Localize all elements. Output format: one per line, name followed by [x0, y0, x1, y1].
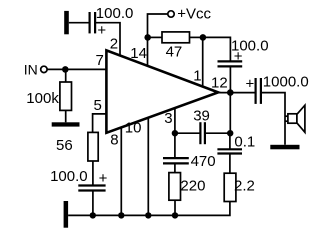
ground G4 bar under speaker	[270, 145, 299, 150]
svg-text:+: +	[246, 76, 255, 93]
wire C3 to speaker	[262, 93, 285, 145]
svg-text:56: 56	[56, 137, 73, 154]
junction dot rail pin 10	[145, 212, 151, 218]
svg-text:220: 220	[180, 178, 205, 195]
resistor R1 47 body	[162, 32, 190, 43]
resistor R3 56 body	[88, 132, 98, 161]
wire node A to R1	[148, 36, 163, 38]
wire ground G1 to C1	[69, 22, 89, 24]
wire C1 to pin 2	[96, 23, 120, 56]
capacitor C1 100.0 (top-left) plates	[88, 12, 90, 33]
svg-text:10: 10	[125, 120, 142, 137]
Vcc terminal circle	[168, 11, 174, 17]
capacitor C7 470 plates	[163, 157, 189, 159]
svg-text:47: 47	[166, 44, 183, 61]
op-amp U1 triangle	[106, 50, 218, 132]
wire R4 to rail	[174, 200, 176, 215]
resistor R4 220 body	[169, 173, 181, 201]
svg-text:0.1: 0.1	[234, 133, 255, 150]
svg-text:+Vcc: +Vcc	[177, 5, 211, 22]
wire ground rail	[68, 202, 230, 216]
IN terminal circle	[41, 66, 47, 72]
junction dot rail pin 8	[118, 212, 124, 218]
ground G1 top-left bar	[64, 11, 69, 34]
capacitor C3 1000.0 plates	[255, 78, 257, 104]
wire IN node to R2	[65, 69, 67, 82]
wire C2 to output node	[229, 66, 231, 92]
wire output to C3	[218, 92, 255, 94]
resistor R2 100k body	[60, 82, 72, 110]
speaker LS1 box	[288, 114, 297, 123]
wire node C to C7	[174, 133, 176, 158]
speaker LS1 stub top	[285, 115, 288, 117]
output junction dot	[227, 89, 234, 96]
wire pin 8 to rail	[120, 128, 122, 216]
svg-text:8: 8	[110, 132, 118, 149]
wire pin 3 to node C	[174, 108, 176, 133]
svg-text:7: 7	[96, 52, 104, 69]
wire C7 to R4	[174, 163, 176, 172]
node IN junction dot	[62, 66, 69, 73]
wire pin 5 to R3	[93, 114, 106, 132]
svg-text:12: 12	[211, 75, 228, 92]
svg-text:100.0: 100.0	[96, 5, 134, 22]
wire R2 to ground G3	[65, 110, 67, 122]
wire pin 10 to rail	[147, 118, 149, 215]
svg-text:1: 1	[193, 67, 201, 84]
capacitor C2 100.0 (top-right) plates	[218, 60, 243, 62]
wire output node to node D	[229, 93, 231, 134]
node D junction dot	[227, 130, 233, 136]
wire R1 to node B	[190, 36, 203, 38]
svg-text:3: 3	[164, 110, 172, 127]
wire C4 to node D	[206, 132, 231, 134]
svg-text:100.0: 100.0	[50, 168, 88, 185]
ground G2 bottom-left bar	[64, 201, 69, 228]
ground G3 bar	[52, 122, 80, 126]
wire node B to C2	[203, 37, 231, 61]
speaker LS1 stub bottom	[285, 120, 288, 122]
node C junction dot	[172, 130, 178, 136]
node B junction dot	[200, 34, 207, 41]
svg-text:5: 5	[94, 97, 102, 114]
svg-text:470: 470	[191, 153, 216, 170]
node A junction dot	[144, 34, 151, 41]
speaker LS1 horn	[297, 105, 305, 132]
wire C5 to R5	[229, 154, 231, 174]
junction dot rail R4	[172, 212, 178, 218]
resistor R5 2.2 body	[224, 173, 236, 201]
capacitor C5 0.1 plates	[217, 148, 242, 150]
svg-text:39: 39	[193, 107, 210, 124]
svg-text:1000.0: 1000.0	[263, 74, 309, 91]
svg-text:100.0: 100.0	[231, 38, 269, 55]
wire R3 to C6	[92, 161, 94, 186]
svg-text:100k: 100k	[26, 90, 59, 107]
wire pin 1	[202, 37, 204, 86]
svg-text:IN: IN	[24, 61, 38, 77]
capacitor C6 100.0 (bottom-left) plates	[78, 184, 105, 186]
wire node C to C4	[175, 132, 200, 134]
wire C6 to rail	[92, 191, 94, 216]
svg-text:2.2: 2.2	[234, 178, 255, 195]
svg-text:+: +	[97, 22, 106, 39]
wire node D to C5	[229, 133, 231, 149]
wire IN to pin 7	[47, 68, 106, 70]
svg-text:2: 2	[110, 35, 118, 52]
svg-text:+: +	[99, 170, 108, 187]
wire Vcc to node A and pin 14	[148, 14, 168, 66]
junction dot rail C6	[90, 212, 96, 218]
capacitor C4 39 plates	[199, 122, 201, 144]
